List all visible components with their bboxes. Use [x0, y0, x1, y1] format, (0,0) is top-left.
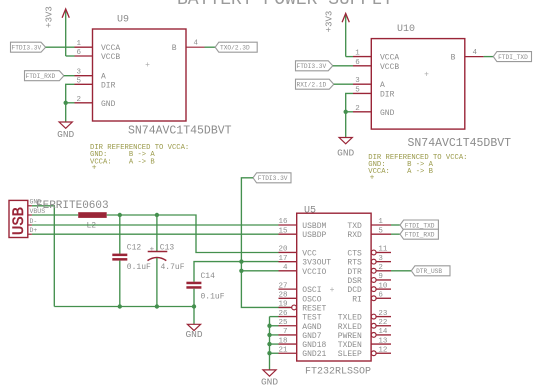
svg-text:D-: D-: [30, 218, 38, 225]
U5 pin 9 DSR stub: [376, 279, 391, 281]
svg-text:TXD: TXD: [347, 222, 362, 231]
svg-text:0.1uF: 0.1uF: [201, 293, 225, 302]
U9 pin name VCCB: [101, 53, 120, 62]
svg-text:1: 1: [378, 218, 383, 226]
C12 refdes: [127, 244, 142, 253]
svg-text:RI: RI: [352, 295, 362, 304]
U5 pin 14 number: [378, 328, 388, 336]
ground symbol below U10: [337, 138, 354, 159]
op-amp U10 SN74AVC1T45DBVT body: [371, 39, 465, 130]
ground symbol below U9: [57, 122, 74, 140]
U9 pin 2 GND stub: [75, 102, 93, 104]
wire +3V3 to U9 pin6: [66, 55, 75, 57]
U9 pin 5 number: [77, 77, 82, 85]
wire U10 B to label: [484, 56, 494, 58]
svg-text:GND18: GND18: [302, 341, 326, 350]
U10 pin 6 VCCB stub: [353, 65, 371, 67]
svg-text:1: 1: [77, 40, 82, 48]
svg-text:11: 11: [378, 246, 388, 254]
U5 pin name TXDEN: [338, 341, 362, 350]
svg-text:U10: U10: [397, 24, 415, 35]
U5 pin 11 CTS stub: [376, 251, 391, 253]
wire C12 top lead: [119, 215, 121, 254]
U10 pin name GND: [380, 109, 395, 118]
U5 pin name TEST: [302, 314, 321, 323]
U9 note line3: [90, 158, 155, 166]
U5 pin 21 number: [278, 346, 288, 354]
wire D- net: [32, 224, 279, 226]
svg-text:2: 2: [355, 105, 360, 113]
label DTR_USB: [411, 266, 450, 276]
svg-text:DTR_USB: DTR_USB: [416, 268, 442, 275]
U5 pin name RXLED: [338, 323, 362, 332]
U5 pin 20 number: [278, 246, 288, 254]
op-amp U5 FT232RLSSOP body: [297, 213, 371, 361]
svg-text:1: 1: [355, 50, 360, 58]
wire U9 DIR to GND run: [66, 84, 75, 122]
svg-text:3: 3: [378, 255, 383, 263]
wire GND rail: [54, 306, 194, 308]
U5 pin 22 RXLED bubble: [371, 323, 376, 328]
svg-text:AGND: AGND: [302, 323, 321, 332]
U5 pin 10 DCD bubble: [371, 287, 376, 292]
junction VBUS at C12: [118, 213, 122, 217]
U10 note line1: [368, 154, 467, 162]
U5 pin 10 DCD stub: [376, 288, 391, 290]
U5 pin name SLEEP: [338, 350, 362, 359]
junction U10 GND net: [344, 110, 348, 114]
svg-text:DSR: DSR: [347, 277, 362, 286]
USB pin stub D+: [28, 233, 32, 235]
svg-text:+3V3: +3V3: [325, 11, 335, 33]
label FTDI_TXD (U5): [400, 220, 438, 230]
U9 pin 4 number: [194, 39, 199, 47]
C13 value 4.7uF: [161, 263, 185, 272]
svg-text:USBDM: USBDM: [302, 222, 326, 231]
U5 pin 21 GND21 stub: [279, 352, 297, 354]
U5 pin 14 PWREN stub: [376, 334, 391, 336]
wire C14 bottom lead: [193, 289, 195, 325]
U5 pin 26 TEST stub: [279, 316, 297, 318]
svg-text:GND: GND: [261, 377, 278, 388]
U5 pin 28 number: [278, 291, 287, 299]
U5 pin 5 RXD stub: [371, 233, 391, 235]
U5 pin 22 RXLED stub: [376, 325, 391, 327]
svg-text:B: B: [172, 44, 177, 53]
wire VBUS ferrite to U5 VCC: [107, 215, 279, 253]
wire U5 TXD to label: [391, 224, 400, 226]
svg-text:6: 6: [378, 291, 383, 299]
U5 pin name GND21: [302, 350, 326, 359]
U9 pin 1 number: [77, 40, 82, 48]
capacitor C13 positive plate: [148, 251, 168, 253]
label FTDI_RXD (U5): [400, 229, 438, 239]
svg-text:16: 16: [278, 218, 288, 226]
svg-text:TEST: TEST: [302, 314, 321, 323]
svg-text:C12: C12: [127, 244, 142, 253]
U5 pin 19 RESET bubble: [292, 305, 297, 310]
U10 pin 3 A stub: [353, 83, 371, 85]
U5 pin 3 RTS stub: [376, 261, 391, 263]
FERRITE0603 label: [36, 200, 109, 212]
svg-text:6: 6: [77, 49, 82, 57]
svg-text:15: 15: [278, 227, 288, 235]
U5 pin 25 AGND stub: [279, 325, 297, 327]
svg-text:4: 4: [473, 49, 478, 57]
U5 pin 3 number: [378, 255, 383, 263]
U10 pin name A: [380, 81, 385, 90]
svg-text:CTS: CTS: [347, 249, 362, 258]
ground symbol below C14: [185, 324, 202, 340]
U10 pin 2 GND stub: [353, 111, 371, 113]
U5 pin 14 PWREN bubble: [371, 333, 376, 338]
U10 pin 4 number: [473, 49, 478, 57]
U5 origin cross: [330, 286, 335, 295]
U10 pin 5 DIR stub: [353, 92, 371, 94]
USB pin label D+: [30, 227, 38, 234]
U5 pin name VCCIO: [302, 268, 326, 277]
U5 pin name OSCO: [302, 295, 321, 304]
svg-text:GND21: GND21: [302, 350, 326, 359]
U5 pin 23 number: [378, 310, 388, 318]
U5 pin 25 number: [278, 319, 288, 327]
wire FTDI3.3V center drop: [241, 178, 290, 308]
U5 pin 6 number: [378, 291, 383, 299]
junction GND7: [267, 333, 271, 337]
ground symbol below U5: [261, 370, 278, 388]
svg-text:TXDEN: TXDEN: [338, 341, 362, 350]
label FTDI_RXD (to U9 A): [25, 71, 64, 81]
U10 pin 5 number: [355, 86, 360, 94]
wire AGND branch: [270, 325, 279, 327]
C12 value 0.1uF: [127, 263, 151, 272]
svg-text:GND: GND: [185, 329, 202, 340]
U9 value SN74AVC1T45DBVT: [128, 125, 232, 138]
svg-text:27: 27: [278, 282, 287, 290]
junction U9 GND net: [63, 101, 67, 105]
svg-text:OSCI: OSCI: [302, 286, 321, 295]
power +3V3 (U10): [325, 11, 350, 57]
U10 note line3: [368, 168, 433, 176]
label FTDI3.3V (to U9 VCCA): [11, 42, 46, 52]
svg-text:DIR: DIR: [380, 90, 395, 99]
U10 note origin cross: [370, 173, 375, 182]
U9 pin 4 B stub: [186, 46, 205, 48]
U5 pin 17 3V3OUT stub: [279, 261, 297, 263]
svg-text:BATTERY POWER SUPPLY: BATTERY POWER SUPPLY: [177, 0, 393, 10]
svg-text:L2: L2: [87, 221, 97, 230]
svg-text:DTR: DTR: [347, 268, 362, 277]
U10 pin name VCCB: [380, 63, 399, 72]
U5 pin name DTR: [347, 268, 362, 277]
svg-text:12: 12: [378, 346, 387, 354]
U5 pin name CTS: [347, 249, 362, 258]
title text (cut off at top): [177, 0, 393, 10]
U5 pin 19 RESET stub: [279, 306, 292, 308]
U10 pin 1 number: [355, 50, 360, 58]
U5 pin name GND18: [302, 341, 326, 350]
U9 pin name GND: [101, 100, 116, 109]
C13 plus sign: [150, 246, 155, 254]
U5 pin 4 number: [283, 264, 288, 272]
svg-text:5: 5: [77, 77, 82, 85]
svg-text:+: +: [330, 286, 335, 295]
U5 pin 26 number: [278, 310, 288, 318]
svg-text:GND: GND: [101, 100, 116, 109]
svg-text:VCCA: VCCA: [101, 44, 120, 53]
U5 pin name USBDP: [302, 231, 326, 240]
U5 pin name VCC: [302, 249, 317, 258]
U5 pin 20 VCC stub: [279, 251, 297, 253]
label FTDI3.3V (to U10 VCCB): [296, 61, 333, 71]
svg-text:SLEEP: SLEEP: [338, 350, 362, 359]
U9 pin name VCCA: [101, 44, 120, 53]
U5 pin 11 number: [378, 246, 388, 254]
label TXO/2.3D: [215, 42, 257, 52]
capacitor C12 plates: [112, 254, 127, 261]
U5 pin name DSR: [347, 277, 362, 286]
svg-text:FERRITE0603: FERRITE0603: [36, 200, 109, 212]
wire USB GND down run: [32, 206, 54, 307]
svg-text:17: 17: [278, 255, 287, 263]
wire 3V3OUT net to C14: [194, 262, 279, 282]
U10 pin name VCCA: [380, 54, 399, 63]
wire C12 bottom lead: [119, 261, 121, 307]
svg-text:VCCA: A -> B: VCCA: A -> B: [90, 158, 155, 166]
wire GND7 branch: [270, 334, 279, 336]
svg-text:20: 20: [278, 246, 288, 254]
svg-text:4: 4: [283, 264, 288, 272]
C14 refdes: [201, 272, 216, 281]
wire FTDI3.3V to U10 pin6: [333, 65, 353, 67]
U9 pin name B: [172, 44, 177, 53]
svg-text:FTDI_RXD: FTDI_RXD: [405, 231, 435, 238]
U5 pin 27 OSCI stub: [279, 288, 297, 290]
connector USB name text: [10, 207, 28, 235]
USB pin stub D-: [28, 224, 32, 226]
svg-text:+: +: [145, 61, 150, 70]
U5 pin 9 DSR bubble: [371, 278, 376, 283]
U5 pin 19 number: [278, 301, 287, 309]
U9 note origin cross: [92, 164, 97, 173]
svg-text:4.7uF: 4.7uF: [161, 263, 185, 272]
svg-text:0.1uF: 0.1uF: [127, 263, 151, 272]
svg-text:5: 5: [355, 86, 360, 94]
svg-text:FTDI_TXD: FTDI_TXD: [498, 54, 528, 61]
label RXI/2.1D (to U10 A): [296, 79, 334, 89]
svg-text:VCCA: VCCA: [380, 54, 399, 63]
U5 pin 11 CTS bubble: [371, 250, 376, 255]
U10 pin 2 number: [355, 105, 360, 113]
svg-text:26: 26: [278, 310, 288, 318]
svg-text:+: +: [150, 246, 155, 254]
U5 pin 28 OSCO stub: [279, 297, 297, 299]
U5 pin 23 TXLED bubble: [371, 314, 376, 319]
U5 pin 3 RTS bubble: [371, 259, 376, 264]
U9 refdes: [117, 15, 129, 26]
wire U5 DTR to label: [391, 270, 411, 272]
U9 pin name DIR: [101, 81, 116, 90]
svg-text:GND7: GND7: [302, 332, 321, 341]
U10 value SN74AVC1T45DBVT: [408, 137, 512, 150]
U5 pin 23 TXLED stub: [376, 316, 391, 318]
wire GND21 branch: [270, 352, 279, 354]
svg-text:RXD: RXD: [347, 231, 362, 240]
U5 pin 2 DTR stub: [376, 270, 391, 272]
svg-text:C14: C14: [201, 272, 216, 281]
U9 pin 5 DIR stub: [75, 83, 93, 85]
svg-text:3V3OUT: 3V3OUT: [302, 259, 331, 268]
U10 origin cross: [424, 71, 429, 80]
svg-text:VCCB: VCCB: [380, 63, 399, 72]
U5 pin name PWREN: [338, 332, 362, 341]
svg-text:7: 7: [283, 328, 288, 336]
C13 refdes: [160, 244, 175, 253]
svg-text:23: 23: [378, 310, 388, 318]
svg-text:VCCA: A -> B: VCCA: A -> B: [368, 168, 433, 176]
U5 pin name TXLED: [338, 314, 362, 323]
U9 pin name A: [101, 73, 106, 82]
svg-text:FTDI3.3V: FTDI3.3V: [258, 175, 288, 182]
U9 pin 3 A stub: [75, 75, 93, 77]
U9 pin 3 number: [77, 69, 82, 77]
svg-text:25: 25: [278, 319, 288, 327]
U5 pin name DCD: [347, 286, 362, 295]
U5 pin name GND7: [302, 332, 321, 341]
U10 refdes: [397, 24, 415, 35]
U9 pin 1 VCCA stub: [75, 46, 93, 48]
svg-text:5: 5: [378, 227, 383, 235]
junction GND21: [267, 351, 271, 355]
svg-text:SN74AVC1T45DBVT: SN74AVC1T45DBVT: [128, 125, 232, 138]
svg-text:RESET: RESET: [302, 304, 326, 313]
U10 note line2: [368, 161, 433, 169]
wire D+ net: [32, 233, 279, 235]
U5 pin 27 number: [278, 282, 287, 290]
U9 pin 6 VCCB stub: [75, 55, 93, 57]
U5 pin 13 number: [378, 337, 388, 345]
op-amp U9 SN74AVC1T45DBVT body: [93, 29, 187, 121]
U5 value FT232RLSSOP: [305, 367, 371, 378]
U5 pin 1 TXD stub: [371, 224, 391, 226]
U9 pin 2 number: [77, 96, 82, 104]
U5 pin name USBDM: [302, 222, 326, 231]
USB pin stub GND: [28, 205, 32, 207]
svg-text:+: +: [92, 164, 97, 173]
U5 pin 18 GND18 stub: [279, 343, 297, 345]
label FTDI_TXD (from U10 B): [493, 52, 531, 62]
svg-text:TXLED: TXLED: [338, 314, 362, 323]
svg-text:VCCB: VCCB: [101, 53, 120, 62]
U5 pin name RI: [352, 295, 362, 304]
junction GND18: [267, 342, 271, 346]
wire U10 DIR to GND run: [346, 93, 353, 137]
svg-text:+: +: [424, 71, 429, 80]
svg-text:USBDP: USBDP: [302, 231, 326, 240]
USB pin label VBUS: [30, 208, 46, 215]
junction 3V3 net at FTDI3.3V drop: [239, 259, 243, 263]
U5 pin 12 SLEEP stub: [376, 352, 391, 354]
svg-text:TXO/2.3D: TXO/2.3D: [220, 45, 250, 52]
svg-text:3: 3: [77, 69, 82, 77]
svg-text:10: 10: [378, 282, 388, 290]
svg-text:19: 19: [278, 301, 287, 309]
capacitor C14 plates: [186, 282, 201, 289]
USB pin label GND: [30, 199, 42, 206]
U9 note line2: [90, 151, 155, 159]
wire VBUS from USB to ferrite: [32, 214, 78, 216]
svg-text:2: 2: [378, 264, 383, 272]
svg-text:2: 2: [77, 96, 82, 104]
wire VCCIO branch: [241, 270, 278, 272]
U5 pin 4 VCCIO stub: [279, 270, 297, 272]
wire FTDI_RXD to U9 pin3: [64, 75, 75, 77]
U9 pin 6 number: [77, 49, 82, 57]
svg-text:FT232RLSSOP: FT232RLSSOP: [305, 367, 371, 378]
U5 pin 17 number: [278, 255, 287, 263]
svg-text:C13: C13: [160, 244, 175, 253]
junction C13 at GND rail: [155, 304, 159, 308]
U5 pin name RESET: [302, 304, 326, 313]
wire U5 RXD to label: [391, 233, 400, 235]
svg-text:6: 6: [355, 59, 360, 67]
svg-text:14: 14: [378, 328, 388, 336]
svg-text:U9: U9: [117, 15, 129, 26]
svg-text:D+: D+: [30, 227, 38, 234]
USB pin stub VBUS: [28, 214, 32, 216]
U5 pin 5 number: [378, 227, 383, 235]
svg-text:VCCIO: VCCIO: [302, 268, 326, 277]
svg-text:U5: U5: [304, 205, 316, 216]
junction C14 at GND rail: [192, 304, 196, 308]
capacitor C13 curved plate: [148, 258, 167, 261]
svg-text:28: 28: [278, 291, 287, 299]
U5 pin name AGND: [302, 323, 321, 332]
L2 label: [87, 221, 97, 230]
svg-text:21: 21: [278, 346, 288, 354]
U10 pin name DIR: [380, 90, 395, 99]
svg-text:FTDI_RXD: FTDI_RXD: [26, 73, 56, 80]
U5 pin 1 number: [378, 218, 383, 226]
wire U10 GND pin to GND run: [346, 111, 353, 113]
U5 pin name 3V3OUT: [302, 259, 331, 268]
U5 pin 12 number: [378, 346, 387, 354]
U9 origin cross: [145, 61, 150, 70]
U5 pin 15 USBDP stub: [279, 233, 297, 235]
wire C13 top lead: [156, 215, 158, 252]
C14 value 0.1uF: [201, 293, 225, 302]
svg-text:13: 13: [378, 337, 388, 345]
connector USB body: [9, 200, 28, 237]
U5 pin name TXD: [347, 222, 362, 231]
U5 pin 18 number: [278, 337, 287, 345]
junction VCCIO branch: [239, 269, 243, 273]
power +3V3 (U9): [45, 6, 70, 56]
svg-text:USB: USB: [10, 207, 28, 235]
U10 pin 4 B stub: [465, 56, 484, 58]
label FTDI3.3V (center): [253, 173, 291, 183]
U5 pin 13 TXDEN stub: [371, 343, 391, 345]
svg-text:A: A: [380, 81, 385, 90]
svg-text:+3V3: +3V3: [45, 6, 55, 28]
svg-text:RXI/2.1D: RXI/2.1D: [297, 82, 327, 89]
U5 pin 6 RI stub: [376, 297, 391, 299]
svg-text:GND: GND: [337, 148, 354, 159]
svg-text:3: 3: [355, 77, 360, 85]
U10 pin 1 VCCA stub: [353, 56, 371, 58]
U5 pin 7 GND7 stub: [279, 334, 297, 336]
svg-text:OSCO: OSCO: [302, 295, 321, 304]
